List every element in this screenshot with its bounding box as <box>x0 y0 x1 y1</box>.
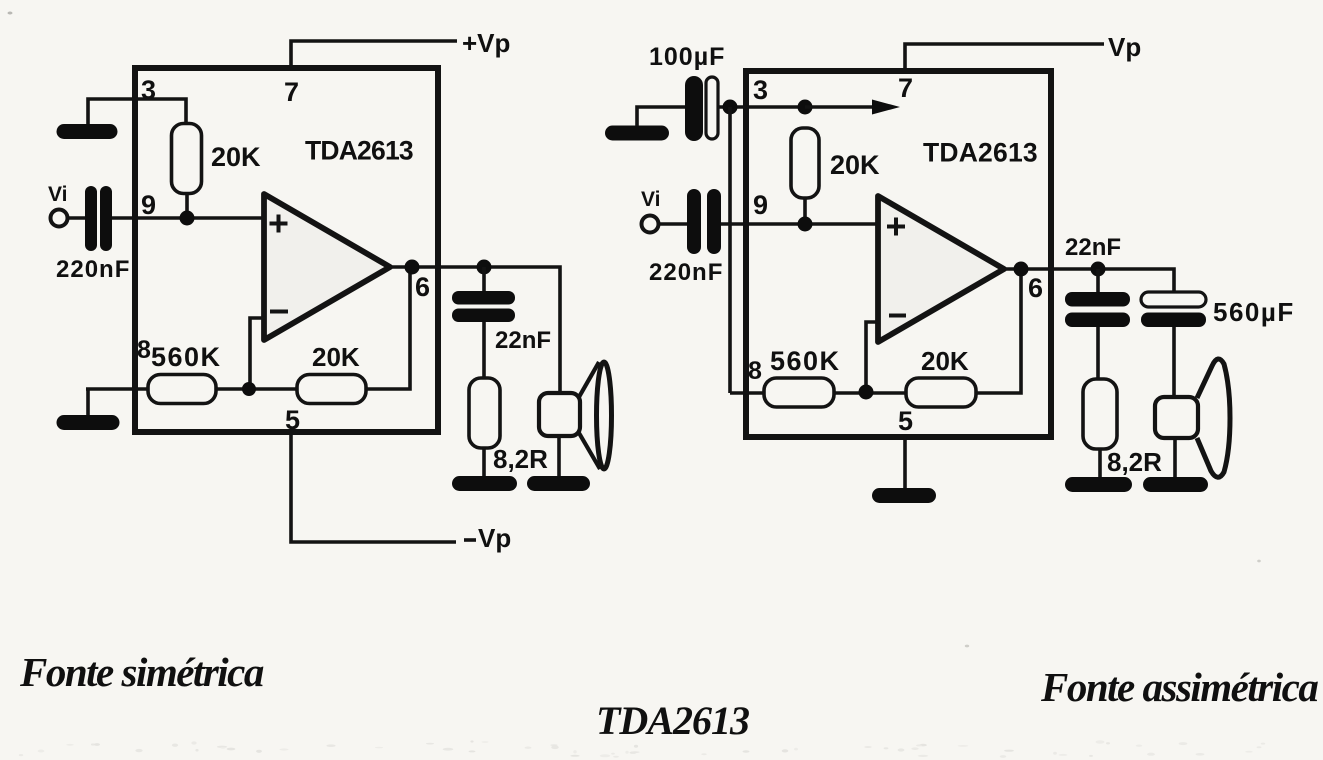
capacitor 22nF (left) plate B <box>452 309 515 323</box>
wire between 560K and 20K feedback (right) <box>834 391 906 395</box>
IC U2 TDA2613 outline (right circuit) <box>746 71 1051 437</box>
speaker LS (right) cone horn outline <box>1197 359 1230 477</box>
resistor 560K (left) <box>148 375 216 404</box>
node Vi input terminal (left) <box>51 210 68 227</box>
wire between 560K and 20K feedback (left) <box>216 387 297 391</box>
svg-text:9: 9 <box>141 190 156 220</box>
svg-text:+Vp: +Vp <box>462 28 510 58</box>
svg-text:560K: 560K <box>770 346 841 376</box>
op-amp plus input mark (right) <box>887 218 905 236</box>
junction 20K top node (right) <box>798 100 813 115</box>
ground under 8,2R (left) <box>460 476 510 491</box>
wire 560uF to speaker (right) <box>1172 327 1176 398</box>
resistor 8,2R (right) <box>1083 379 1117 449</box>
ground under 8,2R (right) <box>1073 477 1125 492</box>
wire 8,2R to ground (left) <box>482 447 486 478</box>
junction 100uF output node (right) <box>723 100 738 115</box>
svg-text:220nF: 220nF <box>649 259 723 286</box>
op-amp U1 body fill (left) <box>264 194 390 340</box>
wire 8,2R to ground (right) <box>1098 448 1102 478</box>
speaker LS (right) voice-coil box <box>1155 397 1198 438</box>
svg-text:8,2R: 8,2R <box>1107 447 1162 477</box>
capacitor 220nF (left) plate A <box>85 186 97 251</box>
svg-text:3: 3 <box>753 75 768 105</box>
wire 20K bottom stub (right) <box>803 197 807 224</box>
resistor 20K feedback (left) <box>297 375 366 404</box>
svg-text:20K: 20K <box>921 346 969 376</box>
ground (left input bias) <box>64 124 110 139</box>
op-amp minus input mark (right) <box>889 314 906 318</box>
wire Vi to capacitor (right) <box>659 222 688 226</box>
svg-text:560µF: 560µF <box>1213 297 1295 327</box>
svg-text:8: 8 <box>137 336 151 364</box>
capacitor 22nF (right) plate A <box>1065 292 1130 307</box>
wire arrow toward pin 7 (right) <box>805 105 878 109</box>
junction op-amp output node (left) <box>405 260 420 275</box>
capacitor 220nF (left) plate B <box>100 186 112 251</box>
wire output pin 6 (left) <box>388 267 560 394</box>
capacitor 100uF plate A (solid) <box>685 76 703 141</box>
wire tap to 22nF (left) <box>482 267 486 293</box>
wire speaker to ground (left) <box>557 436 561 478</box>
junction 22nF tap (right) <box>1091 262 1106 277</box>
svg-text:7: 7 <box>898 73 913 103</box>
IC U1 TDA2613 outline (left circuit) <box>135 68 438 432</box>
svg-text:9: 9 <box>753 190 768 220</box>
svg-text:8,2R: 8,2R <box>493 444 548 474</box>
op-amp minus input mark (left) <box>270 310 288 314</box>
op-amp plus input mark (left) <box>270 215 288 233</box>
wire inverting input stub (left) <box>250 318 265 389</box>
junction feedback node (right) <box>859 385 874 400</box>
wire tap to 22nF (right) <box>1096 269 1100 294</box>
wire 20K feedback to output riser (left) <box>366 267 410 389</box>
svg-text:Vi: Vi <box>641 188 660 211</box>
wire feedback to outside-left (left, pin 8) <box>86 387 149 391</box>
junction op-amp output node (right) <box>1014 262 1029 277</box>
svg-text:TDA2613: TDA2613 <box>305 136 413 166</box>
junction feedback node (left) <box>242 382 256 396</box>
resistor 20K feedback (right) <box>906 378 976 407</box>
svg-text:20K: 20K <box>211 142 261 172</box>
svg-text:TDA2613: TDA2613 <box>596 698 749 743</box>
wire 22nF to 8,2R (right) <box>1096 327 1100 380</box>
svg-text:Vi: Vi <box>48 183 67 206</box>
svg-text:7: 7 <box>284 77 299 107</box>
wire 20K bottom stub (left) <box>185 193 189 218</box>
op-amp U1 triangle (left) <box>264 194 390 340</box>
svg-text:TDA2613: TDA2613 <box>923 138 1038 168</box>
svg-text:6: 6 <box>415 272 430 302</box>
resistor 560K (right) <box>764 378 834 407</box>
wire +Vp lead (left, pin 7) <box>291 41 457 66</box>
capacitor 22nF (left) plate A <box>452 291 515 305</box>
svg-text:Fonte simétrica: Fonte simétrica <box>19 649 264 695</box>
wire pin 5 to -Vp (left) <box>291 435 456 542</box>
svg-text:6: 6 <box>1028 273 1043 303</box>
capacitor 220nF (right) plate B <box>707 189 721 254</box>
wire inverting input stub (right) <box>866 322 879 389</box>
speaker LS (left) cone top edge <box>579 362 599 397</box>
junction pin 9 / 20K node (right) <box>798 217 813 232</box>
svg-text:Vp: Vp <box>1108 32 1141 62</box>
op-amp U2 triangle (right) <box>878 196 1004 342</box>
resistor 8,2R (left) <box>469 378 500 448</box>
wire 20K feedback to output riser (right) <box>976 269 1021 393</box>
wire Vp lead (right, pin 7) <box>905 44 1104 69</box>
node Vi input terminal (right) <box>642 216 659 233</box>
wire Vi to capacitor (left) <box>68 216 86 220</box>
svg-text:22nF: 22nF <box>495 327 551 354</box>
wire pin 5 to ground (right) <box>903 437 907 490</box>
ground under pin 5 (right) <box>880 488 929 503</box>
speaker LS (left) cone mouth <box>597 362 612 469</box>
svg-text:560K: 560K <box>151 342 222 372</box>
capacitor 560uF plate B (solid) <box>1141 313 1206 328</box>
resistor 20K (right input bias) <box>791 128 819 198</box>
wire pin 9 input (right) <box>721 222 880 226</box>
svg-text:5: 5 <box>285 405 300 435</box>
svg-text:5: 5 <box>898 406 913 436</box>
arrowhead on pin 3 wire (right) <box>872 100 900 115</box>
wire pin 3 node down to feedback row (right) <box>728 107 732 393</box>
junction 22nF tap (left) <box>477 260 492 275</box>
capacitor 100uF plate B (hollow) <box>706 77 718 139</box>
ground (left feedback) <box>64 415 112 430</box>
svg-text:8: 8 <box>748 357 762 385</box>
resistor 20K (left input bias) <box>172 124 202 194</box>
op-amp U2 body fill (right) <box>878 196 1004 342</box>
wire feedback row left segment (right) <box>730 391 765 395</box>
ground under speaker (right) <box>1151 477 1201 492</box>
svg-text:20K: 20K <box>312 342 360 372</box>
net -Vp minus dash <box>464 538 476 542</box>
ground (right input bias) <box>613 126 662 141</box>
speaker LS (left) cone bottom edge <box>579 433 600 469</box>
ground under speaker (left) <box>535 476 583 491</box>
capacitor 220nF (right) plate A <box>687 189 701 254</box>
capacitor 22nF (right) plate B <box>1065 313 1130 328</box>
wire 100uF to pin 3 node (right) <box>718 105 806 109</box>
wire output pin 6 (right) <box>1002 269 1174 294</box>
wire pin 9 input (left) <box>112 216 266 220</box>
svg-text:Vp: Vp <box>478 523 511 553</box>
svg-text:Fonte assimétrica: Fonte assimétrica <box>1040 664 1318 710</box>
wire 22nF to 8,2R (left) <box>482 322 486 379</box>
wire ground to pin 3 and 20K top (left) <box>88 99 186 126</box>
svg-text:22nF: 22nF <box>1065 234 1121 261</box>
svg-text:20K: 20K <box>830 150 880 180</box>
wire speaker to ground (right) <box>1173 439 1177 478</box>
wire ground to 100uF (right) <box>637 107 686 126</box>
speaker LS (left) voice-coil box <box>539 393 580 436</box>
junction pin 9 / 20K node (left) <box>180 211 195 226</box>
svg-text:100µF: 100µF <box>649 43 725 71</box>
svg-text:220nF: 220nF <box>56 256 130 283</box>
wire outside-left down to ground (left) <box>86 389 90 416</box>
capacitor 560uF plate A (hollow) <box>1141 292 1206 307</box>
